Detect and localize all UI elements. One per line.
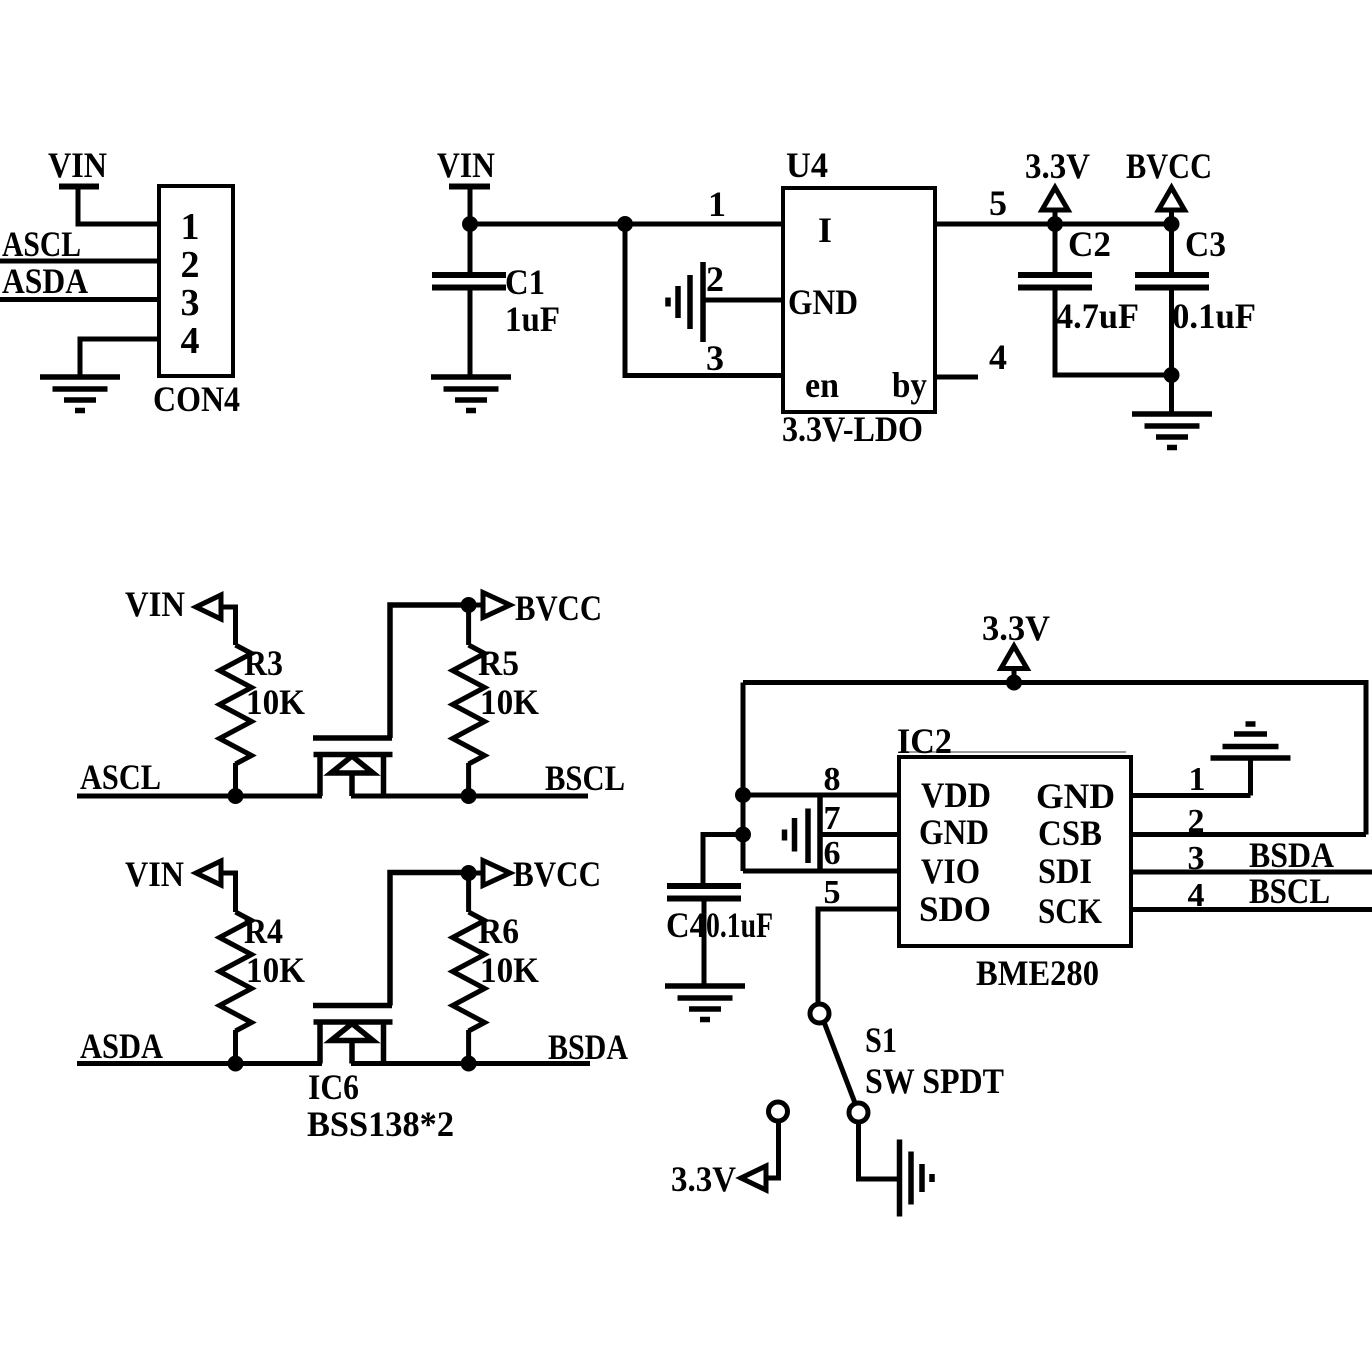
power arrow BVCC (SDA) [469,861,510,886]
ground at C1 [431,377,511,411]
svg-text:BSCL: BSCL [1249,871,1330,911]
junction at C3 top [1164,216,1180,232]
wire ASDA rail [77,1061,322,1066]
net label 3.3V at switch [671,1159,736,1199]
sensor IC2 box [899,752,1131,946]
ground at IC2 pin 1 (inverted) [1211,724,1291,758]
power arrow BVCC (SCL) [469,593,510,618]
net label VIN at CON4 [48,145,107,185]
label CON4 [153,379,240,419]
svg-text:1uF: 1uF [505,299,560,339]
junction R6/BSDA [461,1056,477,1072]
power symbol 3.3V (top) [1042,188,1068,225]
wire IC2 pin 6 (VIO) [743,869,898,874]
svg-text:5: 5 [824,874,841,911]
wire C2 top lead [1053,224,1058,272]
svg-text:4.7uF: 4.7uF [1056,296,1139,336]
net label BSCL (shifter) [545,758,625,798]
pin number 3 (IC2) [1188,840,1205,877]
label IC2 [897,721,952,761]
pin number 2 (IC2) [1188,803,1205,840]
svg-text:by: by [892,365,927,405]
svg-text:10K: 10K [480,682,539,722]
ground at CON4 [40,377,120,411]
pin name CSB [1038,813,1102,853]
junction R4/ASDA [228,1056,244,1072]
wire BSCL rail [351,794,588,799]
svg-text:R6: R6 [478,911,519,951]
svg-text:10K: 10K [246,682,305,722]
wire left 3.3V drop [741,683,746,872]
pin name GND (U4) [788,282,858,322]
svg-text:BVCC: BVCC [513,854,601,894]
svg-text:10K: 10K [246,950,305,990]
svg-text:CON4: CON4 [153,379,240,419]
value 4.7uF [1056,296,1139,336]
ground at switch (sideways right) [900,1140,933,1217]
wire IC2 pin 8 (VDD) [743,793,898,798]
svg-text:ASDA: ASDA [2,261,88,301]
value 10K (R4) [246,950,305,990]
svg-text:VIN: VIN [48,145,107,185]
wire ground stem at IC2 pin 1 [1248,758,1253,796]
net label VIN at R3 [125,584,185,624]
pin number 2 (U4) [706,259,724,299]
wire CON4 pin 4 to ground [80,339,159,377]
svg-text:I: I [818,210,832,250]
svg-text:ASDA: ASDA [80,1026,163,1066]
value 10K (R6) [480,950,539,990]
svg-text:R3: R3 [244,643,283,683]
label R4 [244,911,283,951]
junction gate/BVCC node (SDA) [461,865,477,881]
value 1uF [505,299,560,339]
wire 3.3V top rail [743,683,1366,835]
regulator U4 box [783,188,935,412]
wire C3 bottom lead to ground [1169,288,1174,414]
label BME280 [976,953,1099,993]
junction at C3 bottom [1164,367,1180,383]
svg-text:3: 3 [1188,840,1205,877]
svg-text:4: 4 [181,320,200,362]
value 10K (R3) [246,682,305,722]
pin name I [818,210,832,250]
wire R5 bottom to BSCL [466,763,471,796]
svg-text:ASCL: ASCL [2,224,81,264]
svg-text:SDI: SDI [1038,851,1092,891]
wire IC2 pin 2 (CSB) [1131,832,1366,837]
pin number 7 (IC2) [824,800,841,837]
svg-text:C1: C1 [505,262,545,302]
label R3 [244,643,283,683]
net label BSDA (shifter) [548,1027,628,1067]
value BSS138*2 [307,1104,454,1144]
net label VIN at R4 [125,854,184,894]
pin name VIO [921,851,980,891]
switch S1 throw A terminal [769,1102,788,1121]
pin name en [805,365,839,405]
svg-text:1: 1 [1189,761,1206,798]
junction R3/ASCL [228,788,244,804]
svg-text:C2: C2 [1068,224,1111,264]
wire input net to U4 pin 1 [470,222,783,227]
capacitor C3 [1135,275,1209,288]
wire IC2 pin 5 (SDO) to switch [818,909,898,1004]
junction at C2 top [1047,216,1063,232]
label S1 [865,1020,897,1060]
value 10K (R5) [480,682,539,722]
pin name SCK [1038,891,1102,931]
junction at C1 top [462,216,478,232]
pin number 3 (U4) [706,338,724,378]
wire VIN down to input net [468,186,473,224]
ground at C4 [665,986,745,1020]
svg-text:2: 2 [181,244,200,286]
svg-text:3.3V: 3.3V [982,608,1050,648]
net label BSCL (IC2) [1249,871,1330,911]
label 3.3V-LDO [782,409,923,449]
svg-text:R4: R4 [244,911,283,951]
net label VIN at C1 [437,145,495,185]
net label 3.3V (top) [1025,146,1090,186]
svg-text:VIN: VIN [125,854,184,894]
wire C1 top lead [468,224,473,272]
power arrow VIN at R3 [196,595,221,619]
wire R4 bottom to ASDA [233,1030,238,1064]
switch S1 throw B terminal [849,1103,868,1122]
label R5 [478,643,519,683]
power arrow 3.3V at switch [741,1166,766,1190]
capacitor C1 [432,275,506,288]
svg-text:C4: C4 [666,905,706,945]
value 0.1uF (C4) [706,905,773,945]
svg-text:C3: C3 [1185,224,1226,264]
svg-text:BSDA: BSDA [1249,835,1334,875]
svg-text:SDO: SDO [919,889,991,929]
value 0.1uF [1172,296,1256,336]
ground at C3 [1132,414,1212,448]
svg-text:IC2: IC2 [897,721,952,761]
net label BVCC (SDA) [513,854,601,894]
svg-text:VDD: VDD [921,775,991,815]
wire R6 bottom to BSDA [466,1030,471,1064]
svg-text:1: 1 [708,184,726,224]
svg-text:U4: U4 [786,145,828,185]
label C3 [1185,224,1226,264]
wire R6 top to BVCC node [466,873,471,912]
svg-text:7: 7 [824,800,841,837]
svg-text:BME280: BME280 [976,953,1099,993]
wire throw B to ground [859,1122,898,1179]
pin number 5 (IC2) [824,874,841,911]
resistor R3 [220,645,252,764]
power bar VIN at CON4 [59,184,99,190]
svg-text:BVCC: BVCC [1126,146,1212,186]
wire R3 bottom to ASCL [233,763,238,796]
wire IC2 pin 7 (GND) to ground [820,832,898,837]
svg-text:3: 3 [181,282,200,324]
resistor R5 [453,645,485,764]
svg-text:2: 2 [706,259,724,299]
ground at IC2 pin 7 (sideways) [785,795,821,871]
wire VIN to CON4 pin 1 [78,186,159,224]
wire IC2 pin 3 (SDI) to BSDA [1131,870,1372,875]
switch S1 blade [824,1022,855,1103]
svg-text:0.1uF: 0.1uF [706,905,773,945]
svg-text:6: 6 [824,835,841,872]
label R6 [478,911,519,951]
junction C4 node [735,827,751,843]
label C4 [666,905,706,945]
svg-text:10K: 10K [480,950,539,990]
label C2 [1068,224,1111,264]
power symbol BVCC (top) [1159,188,1185,225]
svg-text:3.3V: 3.3V [1025,146,1090,186]
net label BVCC (SCL) [515,588,602,628]
wire branch to U4 pin 3 (en) [625,224,783,376]
pin name SDO [919,889,991,929]
resistor R6 [453,912,485,1031]
net label ASDA [2,261,88,301]
wire C1 bottom lead [468,288,473,377]
wire VIN arrow to R3 top [221,607,236,645]
switch S1 common terminal [810,1004,829,1023]
power arrow VIN at R4 [196,861,221,885]
svg-text:GND: GND [919,812,989,852]
svg-text:3.3V: 3.3V [671,1159,736,1199]
label C1 [505,262,545,302]
svg-text:BSS138*2: BSS138*2 [307,1104,454,1144]
svg-text:0.1uF: 0.1uF [1172,296,1256,336]
svg-text:SCK: SCK [1038,891,1102,931]
svg-text:GND: GND [1036,776,1115,816]
svg-text:ASCL: ASCL [80,757,161,797]
svg-text:SW SPDT: SW SPDT [865,1061,1004,1101]
svg-text:S1: S1 [865,1020,897,1060]
wire IC2 pin 1 (GND) [1131,793,1251,798]
connector CON4 [159,186,233,376]
capacitor C4 [667,886,741,899]
svg-text:1: 1 [181,206,200,248]
pin number 8 (IC2) [824,761,841,798]
wire BSDA rail [351,1061,590,1066]
junction 3.3V top wire [1006,675,1022,691]
junction VDD node [735,787,751,803]
svg-text:4: 4 [989,337,1007,377]
label U4 [786,145,828,185]
svg-text:R5: R5 [478,643,519,683]
wire C3 top lead [1169,224,1174,272]
wire ASCL to CON4 pin 2 [0,259,159,264]
pin name VDD [921,775,991,815]
wire U4 pin 4 stub [935,375,978,380]
net label ASCL [2,224,81,264]
pin name GND (IC2 left) [919,812,989,852]
pin number 5 (U4) [989,183,1007,223]
resistor R4 [220,912,252,1031]
pin name GND (IC2 right) [1036,776,1115,816]
pin name SDI [1038,851,1092,891]
transistor Q (IC6a) level shifter SCL [313,605,469,796]
svg-text:3.3V-LDO: 3.3V-LDO [782,409,923,449]
pin number 2 (CON4) [181,244,200,286]
pin number 4 (U4) [989,337,1007,377]
wire throw A to 3.3V arrow [765,1121,779,1178]
pin number 4 (IC2) [1188,877,1205,914]
net label BSDA (IC2) [1249,835,1334,875]
label SW SPDT [865,1061,1004,1101]
svg-text:BVCC: BVCC [515,588,602,628]
svg-text:IC6: IC6 [308,1067,359,1107]
wire U4 pin 5 to 3.3V/BVCC [935,222,1172,227]
svg-text:GND: GND [788,282,858,322]
wire IC2 pin 4 (SCK) to BSCL [1131,907,1372,912]
svg-text:en: en [805,365,839,405]
wire C4 top lead [703,835,743,885]
wire ASCL rail [77,794,322,799]
junction at U4 enable branch [617,216,633,232]
svg-text:VIN: VIN [437,145,495,185]
junction R5/BSCL [461,788,477,804]
net label 3.3V at BME280 [982,608,1050,648]
label IC6 [308,1067,359,1107]
pin number 1 (IC2) [1189,761,1206,798]
wire U4 GND pin to ground [705,298,783,303]
svg-text:BSDA: BSDA [548,1027,628,1067]
power bar VIN at C1 [449,184,490,190]
svg-text:8: 8 [824,761,841,798]
net label BVCC (top) [1126,146,1212,186]
pin name by [892,365,927,405]
svg-text:4: 4 [1188,877,1205,914]
wire VIN arrow to R4 top [221,873,236,912]
svg-text:3: 3 [706,338,724,378]
svg-text:CSB: CSB [1038,813,1102,853]
pin number 6 (IC2) [824,835,841,872]
net label ASDA (shifter) [80,1026,163,1066]
svg-text:BSCL: BSCL [545,758,625,798]
capacitor C2 [1018,275,1092,288]
transistor Q (IC6b) level shifter SDA [313,873,469,1064]
svg-text:VIN: VIN [125,584,185,624]
power symbol 3.3V at BME280 [1001,646,1027,683]
pin number 3 (CON4) [181,282,200,324]
wire C2 bottom lead [1055,288,1172,375]
wire C4 bottom lead [702,899,707,986]
pin number 4 (CON4) [181,320,200,362]
svg-text:VIO: VIO [921,851,980,891]
wire R5 top to BVCC node [466,605,471,645]
svg-text:5: 5 [989,183,1007,223]
junction gate/BVCC node (SCL) [461,597,477,613]
pin number 1 (CON4) [181,206,200,248]
svg-text:2: 2 [1188,803,1205,840]
ground at U4 GND (sideways) [668,262,703,342]
pin number 1 (U4) [708,184,726,224]
wire ASDA to CON4 pin 3 [0,297,159,302]
net label ASCL (shifter) [80,757,161,797]
